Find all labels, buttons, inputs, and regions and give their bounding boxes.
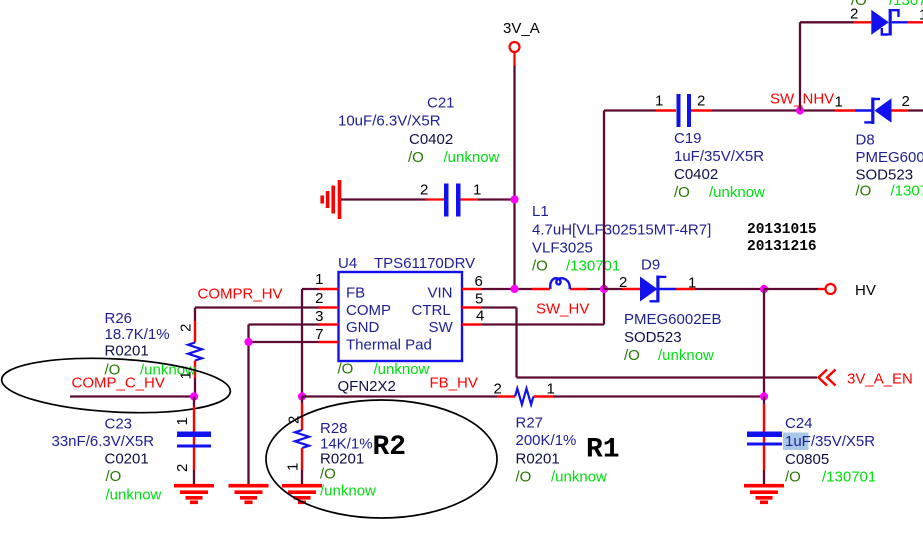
capacitor C21 symbol [444, 184, 461, 217]
label D8 values [856, 132, 923, 200]
resistor R27 [494, 381, 555, 405]
label C21 values [338, 95, 500, 167]
label R27 values [516, 415, 608, 486]
svg-text:SOD523: SOD523 [856, 167, 914, 184]
svg-text:COMPR_HV: COMPR_HV [198, 286, 283, 303]
inductor L1 coil [550, 278, 570, 289]
svg-text:C0805: C0805 [785, 451, 829, 468]
svg-text:GND: GND [346, 319, 380, 336]
svg-text:/unknow: /unknow [320, 483, 376, 500]
svg-text:C21: C21 [427, 95, 455, 112]
diode D10 top [850, 6, 923, 36]
svg-text:/O: /O [516, 469, 532, 486]
svg-text:COMP_C_HV: COMP_C_HV [72, 375, 165, 392]
svg-text:FB_HV: FB_HV [430, 375, 478, 392]
label top diode clipped [851, 0, 923, 9]
capacitor C23 [174, 397, 211, 485]
pin 6 VIN stub [462, 273, 483, 290]
node HV terminal [764, 282, 876, 299]
pin 2 COMP stub [315, 290, 338, 308]
svg-text:1uF/35V/X5R: 1uF/35V/X5R [674, 148, 764, 165]
wire HV to C24 vertical [763, 289, 765, 397]
ground GND2 (U4 GND) [229, 486, 269, 503]
capacitor C24 [747, 397, 782, 485]
svg-text:VIN: VIN [428, 285, 453, 302]
svg-text:4: 4 [476, 308, 484, 325]
junction dot SW node [600, 285, 608, 293]
svg-text:R28: R28 [320, 420, 348, 437]
wire FB_HV row [302, 395, 764, 397]
svg-text:2: 2 [178, 324, 195, 332]
svg-text:3V_A_EN: 3V_A_EN [847, 371, 913, 388]
svg-text:3: 3 [315, 308, 323, 325]
svg-text:D8: D8 [856, 132, 875, 149]
wire C21 row [341, 198, 515, 200]
svg-text:/O: /O [851, 0, 867, 9]
junction dot COMP_C_HV [190, 392, 198, 400]
label U4 package [338, 361, 430, 396]
wire SW pin to SW_HV vertical [481, 289, 604, 325]
port chevron 3V_A_EN [819, 370, 836, 386]
ellipse annotation around COMP_C_HV [0, 353, 231, 418]
wire COMPR_HV net [195, 308, 319, 322]
pin 3 GND stub [315, 308, 338, 325]
svg-text:Thermal Pad: Thermal Pad [346, 337, 432, 354]
svg-text:/unknow: /unknow [444, 149, 500, 166]
svg-text:1: 1 [655, 93, 663, 110]
svg-text:1: 1 [174, 417, 191, 425]
svg-text:2: 2 [420, 182, 428, 199]
ground GND4 (C24) [744, 486, 784, 503]
svg-text:U4: U4 [338, 255, 357, 272]
svg-text:/O: /O [320, 466, 336, 483]
svg-text:C0402: C0402 [409, 131, 453, 148]
svg-text:10uF/6.3V/X5R: 10uF/6.3V/X5R [338, 113, 441, 130]
wire FB to vertical [302, 289, 319, 397]
pin 1 FB stub [315, 271, 338, 289]
svg-text:SW_HV: SW_HV [536, 301, 589, 318]
svg-text:SOD523: SOD523 [624, 329, 682, 346]
svg-text:/unknow: /unknow [551, 469, 607, 486]
wire ThermalPad net [249, 341, 319, 343]
svg-text:/unknow: /unknow [374, 361, 430, 378]
resistor R26 [178, 321, 203, 397]
wire GND pin3 net [249, 325, 319, 485]
svg-text:SW: SW [429, 319, 454, 336]
svg-text:6: 6 [475, 273, 483, 290]
svg-text:7: 7 [315, 326, 323, 343]
svg-text:C0402: C0402 [674, 166, 718, 183]
svg-text:QFN2X2: QFN2X2 [338, 378, 396, 395]
svg-text:R1: R1 [586, 435, 620, 466]
svg-text:PMEG6002EB: PMEG6002EB [856, 149, 923, 166]
junction dot SW_NHV [796, 106, 804, 114]
svg-text:R0201: R0201 [105, 343, 149, 360]
svg-text:1: 1 [315, 271, 323, 288]
pin 4 SW stub [462, 308, 484, 325]
svg-text:COMP: COMP [346, 302, 391, 319]
ellipse annotation around R28 [266, 400, 497, 518]
svg-text:1uF/35V/X5R: 1uF/35V/X5R [785, 433, 875, 450]
junction dot HV node [760, 285, 768, 293]
svg-text:/O: /O [785, 469, 801, 486]
svg-text:20131216: 20131216 [747, 239, 817, 255]
svg-text:R27: R27 [516, 415, 544, 432]
svg-text:HV: HV [855, 282, 876, 299]
wire top diode row [800, 21, 871, 23]
svg-text:/O: /O [674, 184, 690, 201]
junction GND/Thermal [244, 338, 252, 346]
label R28 values [320, 420, 376, 500]
svg-text:C23: C23 [105, 416, 133, 433]
svg-text:PMEG6002EB: PMEG6002EB [624, 311, 722, 328]
svg-text:/O: /O [106, 468, 122, 485]
svg-text:R2: R2 [373, 432, 407, 463]
svg-text:20131015: 20131015 [747, 222, 817, 238]
label C23 values [52, 416, 162, 504]
wire COMP_C_HV stub [70, 395, 194, 397]
svg-text:18.7K/1%: 18.7K/1% [105, 326, 170, 343]
wire SW_NHV vertical to top [799, 22, 801, 110]
svg-text:SW_NHV: SW_NHV [770, 91, 834, 108]
node 3V_A terminal circle [503, 20, 540, 66]
svg-text:1: 1 [688, 275, 696, 292]
svg-text:L1: L1 [532, 203, 549, 220]
svg-text:200K/1%: 200K/1% [516, 432, 577, 449]
wire C19 branch vertical [603, 111, 605, 290]
svg-text:/O: /O [532, 258, 548, 275]
resistor R28 [285, 397, 310, 485]
svg-text:1: 1 [835, 94, 843, 111]
label L1 values [532, 203, 711, 275]
svg-text:/130701: /130701 [822, 469, 876, 486]
svg-text:/130701: /130701 [891, 183, 923, 200]
svg-text:1: 1 [547, 381, 555, 398]
svg-text:3V_A: 3V_A [503, 20, 540, 37]
capacitor C19 symbol [677, 94, 692, 127]
svg-text:2: 2 [902, 93, 910, 110]
svg-text:C0201: C0201 [105, 451, 149, 468]
pin 7 ThermalPad stub [315, 326, 338, 343]
label D9 values [624, 311, 722, 364]
junction dot C24 [760, 392, 768, 400]
svg-text:2: 2 [697, 93, 705, 110]
svg-text:FB: FB [346, 285, 365, 302]
svg-text:1: 1 [285, 463, 302, 471]
wire CTRL to 3V_A_EN [481, 308, 817, 378]
svg-text:R0201: R0201 [516, 451, 560, 468]
label R26 values [105, 310, 197, 379]
junction dot VIN/3V_A [510, 285, 518, 293]
pin 5 CTRL stub [462, 291, 483, 308]
svg-text:4.7uH[VLF302515MT-4R7]: 4.7uH[VLF302515MT-4R7] [532, 222, 711, 239]
label date codes [747, 222, 817, 255]
wire C19/SW_NHV row [604, 109, 855, 111]
ground GND3 (R28) [282, 486, 322, 503]
svg-text:/O: /O [408, 149, 424, 166]
svg-text:/130701: /130701 [889, 0, 923, 9]
svg-text:2: 2 [174, 464, 191, 472]
svg-text:C24: C24 [785, 415, 813, 432]
svg-text:/O: /O [338, 361, 354, 378]
diode D9 [604, 274, 764, 303]
svg-text:TPS61170DRV: TPS61170DRV [374, 255, 475, 272]
svg-text:1: 1 [473, 182, 481, 199]
junction dot FB_HV left [298, 392, 306, 400]
diode D8 [835, 93, 923, 124]
svg-text:5: 5 [475, 291, 483, 308]
label C19 values [674, 130, 765, 201]
svg-text:VLF3025: VLF3025 [532, 240, 593, 257]
svg-text:C19: C19 [674, 130, 702, 147]
svg-text:/O: /O [856, 183, 872, 200]
svg-text:/unknow: /unknow [658, 347, 714, 364]
op-amp U1 : U4 TPS61170DRV box [338, 255, 475, 361]
svg-text:1: 1 [919, 7, 923, 24]
label C24 values with 1uF highlighted [783, 415, 876, 486]
svg-text:CTRL: CTRL [412, 302, 451, 319]
svg-text:/O: /O [624, 347, 640, 364]
svg-text:2: 2 [315, 290, 323, 307]
ground GND5 (rotated, left of C21) [322, 180, 339, 219]
svg-text:D9: D9 [641, 257, 660, 274]
svg-text:/unknow: /unknow [709, 184, 765, 201]
svg-text:2: 2 [619, 274, 627, 291]
svg-text:/unknow: /unknow [106, 487, 162, 504]
svg-text:R26: R26 [105, 310, 133, 327]
ground GND1 (C23) [174, 486, 214, 503]
junction dot C21/3V_A [510, 195, 518, 203]
svg-text:2: 2 [494, 381, 502, 398]
wire 3V_A vertical [513, 66, 515, 289]
svg-text:/130701: /130701 [566, 258, 620, 275]
wire VIN row with L1 [481, 288, 604, 290]
svg-text:33nF/6.3V/X5R: 33nF/6.3V/X5R [52, 433, 155, 450]
